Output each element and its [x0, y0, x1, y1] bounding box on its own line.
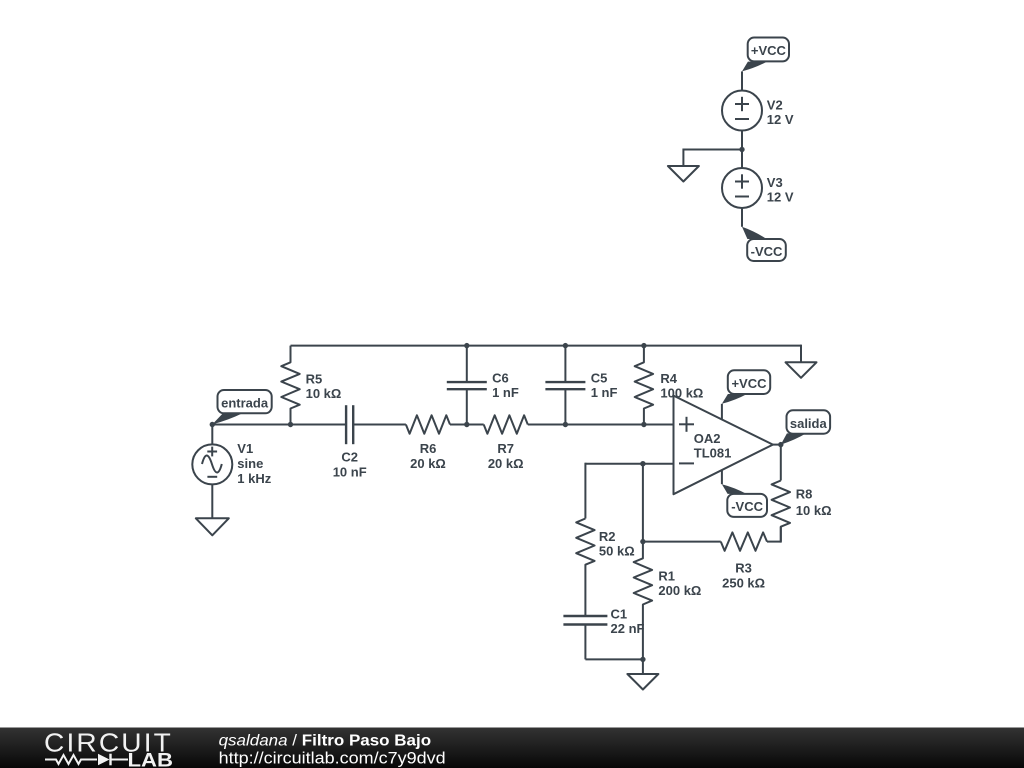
wire [585, 625, 643, 660]
svg-text:R3: R3 [735, 561, 752, 576]
capacitor C6 [447, 346, 519, 425]
svg-text:20 kΩ: 20 kΩ [410, 456, 446, 471]
node R4 top [641, 343, 646, 348]
svg-text:1 nF: 1 nF [591, 385, 618, 400]
flag +VCC (power) [742, 38, 789, 72]
wire inverting input rail [585, 463, 673, 465]
svg-text:C5: C5 [591, 371, 608, 386]
svg-text:-VCC: -VCC [731, 499, 763, 514]
svg-text:R6: R6 [420, 441, 437, 456]
capacitor C1 [563, 607, 644, 637]
svg-text:R2: R2 [599, 529, 616, 544]
wire top feedback rail [291, 345, 802, 347]
svg-text:20 kΩ: 20 kΩ [488, 456, 524, 471]
flag entrada [212, 390, 271, 424]
wire [642, 464, 644, 542]
svg-text:1 nF: 1 nF [492, 385, 519, 400]
svg-text:C2: C2 [341, 450, 358, 465]
footer title [219, 733, 432, 750]
wire input rail left [212, 424, 346, 426]
node inverting input [640, 461, 645, 466]
resistor R5 [281, 346, 341, 425]
svg-text:10 kΩ: 10 kΩ [796, 503, 832, 518]
svg-text:10 nF: 10 nF [333, 465, 367, 480]
node C6 top [464, 343, 469, 348]
svg-text:http://circuitlab.com/c7y9dvd: http://circuitlab.com/c7y9dvd [219, 750, 446, 768]
voltage source V3 [722, 168, 794, 208]
wire [642, 659, 644, 674]
svg-text:+VCC: +VCC [731, 376, 767, 391]
svg-text:22 nF: 22 nF [611, 621, 645, 636]
flag +VCC (op-amp) [722, 370, 770, 404]
ground (V1) [196, 518, 229, 535]
node entrada/V1 [210, 422, 215, 427]
capacitor C2 [333, 405, 367, 479]
resistor R4 [635, 346, 704, 425]
wire op-amp V+ pin [721, 404, 723, 420]
svg-text:R8: R8 [796, 487, 813, 502]
svg-text:100 kΩ: 100 kΩ [660, 386, 703, 401]
ground (bottom) [627, 674, 658, 690]
svg-text:sine: sine [237, 456, 263, 471]
voltage source V1 [192, 441, 271, 486]
svg-text:V3: V3 [767, 175, 783, 190]
wire [800, 345, 802, 363]
wire [211, 425, 213, 445]
resistor R2 [576, 519, 634, 617]
flag salida [781, 410, 830, 444]
svg-text:C1: C1 [611, 607, 628, 622]
svg-text:OA2: OA2 [694, 431, 721, 446]
svg-text:R5: R5 [306, 372, 323, 387]
wire [584, 463, 586, 519]
svg-text:qsaldana / Filtro Paso Bajo: qsaldana / Filtro Paso Bajo [219, 733, 432, 750]
wire [528, 424, 674, 426]
node C5 top [563, 343, 568, 348]
svg-text:R7: R7 [497, 441, 514, 456]
wire op-amp V- pin [721, 470, 723, 485]
resistor R8 [772, 481, 832, 542]
ground (top right) [786, 362, 817, 378]
op-amp OA2 TL081 [674, 396, 773, 495]
resistor R6 [406, 415, 450, 471]
svg-text:200 kΩ: 200 kΩ [658, 583, 701, 598]
svg-text:TL081: TL081 [694, 446, 732, 461]
wire [741, 71, 743, 90]
node output [778, 442, 783, 447]
node ground junction [640, 657, 645, 662]
svg-text:R1: R1 [658, 568, 675, 583]
svg-text:-VCC: -VCC [751, 244, 783, 259]
svg-text:12 V: 12 V [767, 112, 794, 127]
resistor R3 [643, 527, 781, 591]
node power junction [739, 147, 744, 152]
wire [741, 208, 743, 227]
svg-text:entrada: entrada [221, 395, 269, 410]
CircuitLab logo [44, 728, 173, 768]
wire [450, 424, 484, 426]
svg-text:V2: V2 [767, 98, 783, 113]
flag -VCC (power) [742, 227, 786, 261]
node C6 bottom [464, 422, 469, 427]
svg-text:12 V: 12 V [767, 190, 794, 205]
svg-text:50 kΩ: 50 kΩ [599, 544, 635, 559]
svg-text:salida: salida [790, 416, 828, 431]
node R5 bottom [288, 422, 293, 427]
footer url [219, 750, 446, 768]
svg-text:R4: R4 [660, 371, 677, 386]
wire [683, 149, 742, 167]
wire [353, 424, 406, 426]
capacitor C5 [545, 346, 617, 425]
svg-text:LAB: LAB [128, 751, 174, 768]
node C5 bottom [563, 422, 568, 427]
svg-text:C6: C6 [492, 371, 509, 386]
voltage source V2 [722, 91, 794, 131]
svg-text:250 kΩ: 250 kΩ [722, 576, 765, 591]
wire [741, 131, 743, 169]
svg-text:+VCC: +VCC [751, 43, 787, 58]
node R4 bottom [641, 422, 646, 427]
ground (power) [668, 166, 699, 182]
resistor R7 [484, 415, 528, 471]
svg-text:10 kΩ: 10 kΩ [306, 386, 342, 401]
svg-text:V1: V1 [237, 441, 253, 456]
flag -VCC (op-amp) [722, 484, 767, 517]
wire op-amp output [773, 445, 781, 481]
resistor R1 [634, 542, 702, 660]
wire [211, 484, 213, 518]
node R1/R3 junction [640, 539, 645, 544]
footer bar [0, 728, 1024, 768]
svg-text:1 kHz: 1 kHz [237, 471, 271, 486]
